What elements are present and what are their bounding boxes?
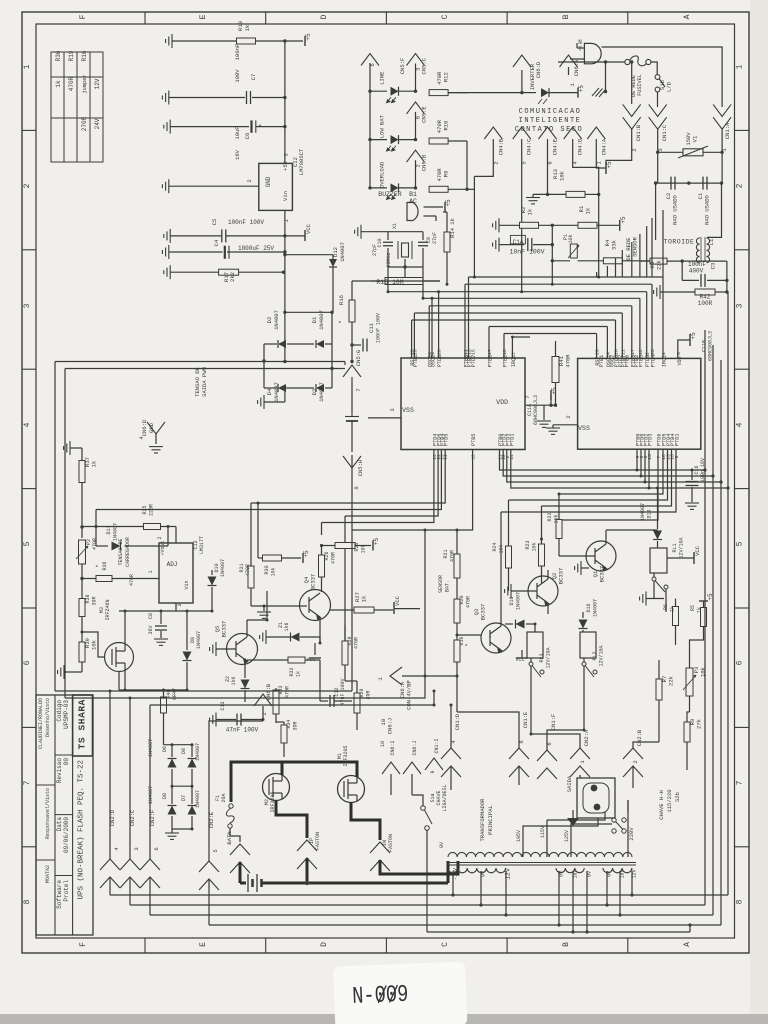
svg-text:PTD1: PTD1 — [675, 434, 681, 446]
wire margin v3 — [720, 360, 722, 925]
diode D6 1N4007 — [168, 759, 177, 768]
wire — [370, 139, 387, 141]
transistor Q5 BC337 — [227, 634, 258, 665]
sticker N-009 — [333, 961, 467, 1024]
svg-text:CN1:F: CN1:F — [550, 714, 557, 731]
junction — [282, 271, 285, 274]
wire — [216, 719, 236, 721]
regulator C13 LM317T — [159, 543, 193, 603]
crystal X1 — [402, 243, 409, 257]
frame tick top — [506, 12, 508, 24]
svg-text:26: 26 — [437, 349, 443, 355]
connector pin — [623, 104, 641, 116]
svg-text:1N4007: 1N4007 — [339, 242, 346, 262]
wire — [275, 688, 277, 690]
fuse F1 20A — [229, 804, 233, 808]
svg-text:Vin: Vin — [184, 580, 190, 589]
wire — [163, 713, 165, 745]
svg-text:D14: D14 — [647, 509, 653, 518]
svg-text:4: 4 — [23, 422, 32, 427]
svg-text:D: D — [320, 14, 329, 19]
svg-text:RL3: RL3 — [539, 653, 545, 662]
wire stem — [415, 112, 417, 140]
wire — [250, 588, 252, 606]
connector — [297, 840, 317, 869]
wire bus line — [412, 319, 616, 321]
svg-text:C5: C5 — [211, 219, 218, 226]
table column line — [63, 52, 65, 162]
title divider left — [36, 784, 55, 786]
resistor R19 * — [454, 640, 460, 662]
+5 bar — [699, 600, 708, 602]
wire — [119, 610, 212, 612]
svg-text:2: 2 — [645, 352, 651, 355]
svg-text:T: T — [578, 46, 582, 53]
wire — [658, 660, 660, 679]
frame tick left — [22, 726, 36, 728]
wire — [583, 666, 585, 684]
wire IC2 VDD pin to +5 — [678, 340, 690, 358]
wire — [675, 599, 677, 607]
ground G3 — [164, 120, 170, 134]
wire — [172, 828, 192, 830]
wire — [555, 341, 557, 357]
svg-text:26: 26 — [614, 349, 620, 355]
wire — [667, 557, 694, 559]
wire — [532, 194, 534, 197]
svg-text:0V: 0V — [439, 842, 445, 848]
svg-text:7: 7 — [23, 780, 32, 785]
wire — [129, 698, 131, 859]
svg-text:1N4007: 1N4007 — [318, 310, 325, 330]
svg-text:27k: 27k — [696, 718, 703, 729]
wire — [321, 577, 323, 592]
title cell TS SHARA — [73, 695, 93, 756]
title divider — [55, 814, 73, 816]
wire — [597, 224, 620, 226]
wire — [330, 609, 354, 611]
svg-text:+5: +5 — [578, 85, 585, 93]
wire down to bus — [598, 194, 600, 277]
wire — [541, 566, 543, 583]
wire tap 18V — [619, 871, 621, 915]
svg-text:470R: 470R — [565, 354, 572, 368]
svg-text:A: A — [683, 14, 692, 19]
wire — [657, 541, 659, 548]
svg-text:R15 10M: R15 10M — [376, 279, 403, 286]
frame tick right — [735, 726, 750, 728]
svg-text:CN2:C: CN2:C — [129, 809, 136, 826]
varistor slash — [678, 146, 708, 158]
+5 supply buzzer — [444, 202, 446, 212]
svg-text:R35: R35 — [142, 505, 148, 514]
wire — [499, 244, 524, 246]
wire — [399, 187, 416, 189]
svg-text:22k: 22k — [668, 675, 675, 686]
svg-text:1k6: 1k6 — [231, 676, 237, 685]
wire CN4:A stem to +5 — [596, 139, 606, 168]
LED LINE — [391, 87, 399, 96]
capacitor C7 — [247, 91, 251, 104]
switch S2b chave H-H — [612, 818, 616, 822]
diode — [579, 620, 588, 629]
svg-text:SENSOR: SENSOR — [632, 236, 639, 257]
wire — [581, 567, 589, 569]
svg-text:D8: D8 — [181, 748, 187, 754]
table row line — [51, 76, 103, 78]
diode — [278, 340, 286, 348]
diode D8b 1N4007 — [168, 806, 177, 815]
svg-text:CN1:E: CN1:E — [522, 711, 529, 728]
wire stem — [415, 64, 417, 92]
wire — [345, 680, 357, 682]
transistor Q3 BC337 — [481, 623, 511, 653]
svg-text:+5: +5 — [303, 550, 310, 558]
frame tick left — [22, 488, 36, 490]
svg-text:1k: 1k — [91, 460, 98, 467]
svg-text:17: 17 — [487, 349, 493, 355]
svg-text:R9: R9 — [443, 171, 450, 178]
junction — [283, 125, 286, 128]
wire — [125, 545, 169, 547]
wire Q4 emitter — [319, 617, 321, 643]
svg-text:1N4007: 1N4007 — [640, 503, 646, 521]
junction — [630, 60, 633, 63]
wire — [703, 151, 722, 153]
wire — [605, 530, 607, 544]
wire L1 bottom row — [640, 260, 650, 262]
connector pin — [649, 117, 667, 129]
S1a blade — [425, 810, 433, 824]
frame tick bottom — [627, 938, 629, 953]
svg-text:1N4007: 1N4007 — [273, 310, 280, 330]
svg-text:470R: 470R — [436, 71, 443, 85]
ground — [685, 503, 699, 509]
wire margin v1 — [704, 330, 706, 905]
wire IC2 right-bottom pins to left — [559, 449, 663, 494]
ground Q2 — [505, 584, 511, 598]
resistor R21 470R — [454, 554, 460, 578]
frame tick top — [627, 12, 629, 24]
svg-text:12V/10A: 12V/10A — [599, 645, 605, 666]
svg-text:470R: 470R — [450, 550, 456, 562]
svg-text:5: 5 — [674, 455, 680, 458]
ground C14 — [493, 238, 499, 252]
svg-text:C13: C13 — [220, 701, 226, 710]
wire — [457, 634, 481, 636]
svg-text:DE REDE: DE REDE — [625, 237, 632, 261]
frame tick bottom — [506, 938, 508, 953]
svg-text:CN2:B: CN2:B — [636, 729, 643, 746]
svg-text:6: 6 — [736, 660, 745, 665]
wire — [456, 662, 458, 676]
wire — [171, 816, 173, 829]
svg-text:47nF 100V: 47nF 100V — [226, 727, 259, 734]
diode D5 LED — [541, 88, 549, 97]
svg-text:CN1:B: CN1:B — [635, 124, 642, 141]
connector CN4:B — [484, 127, 502, 139]
svg-text:3: 3 — [415, 68, 422, 71]
svg-text:BC337: BC337 — [480, 604, 487, 621]
junction — [80, 525, 83, 528]
table column line — [76, 52, 78, 162]
wire — [518, 766, 520, 785]
svg-text:6: 6 — [546, 742, 553, 745]
svg-text:VSS: VSS — [402, 407, 414, 414]
wire — [404, 259, 406, 267]
svg-text:X1: X1 — [392, 223, 398, 229]
wire tap 12V — [505, 871, 507, 915]
svg-text:2: 2 — [632, 760, 639, 763]
connector CN5:B — [407, 150, 425, 162]
wire run B — [130, 904, 705, 906]
svg-text:R6: R6 — [663, 604, 669, 610]
wire — [186, 662, 188, 690]
svg-text:CN6:J: CN6:J — [412, 740, 418, 755]
capacitor — [330, 695, 334, 707]
resistor R9 — [429, 186, 448, 192]
wire bus drop right — [662, 277, 664, 358]
resistor — [701, 608, 707, 627]
ground — [260, 630, 266, 644]
svg-text:LOW BAT: LOW BAT — [379, 114, 386, 138]
svg-text:PTD5: PTD5 — [444, 434, 450, 446]
resistor — [650, 258, 667, 264]
svg-text:Codigo: Codigo — [56, 700, 63, 722]
svg-text:2: 2 — [736, 183, 745, 188]
svg-text:12V: 12V — [505, 868, 512, 880]
transformer core — [448, 862, 636, 864]
connector CN5:H — [343, 456, 361, 468]
svg-text:CN4:B: CN4:B — [497, 138, 504, 155]
junction — [283, 39, 286, 42]
wire — [109, 691, 111, 859]
wire bus line — [489, 326, 607, 328]
capacitor C4 electrolytic — [224, 246, 226, 259]
wire VCC stub — [285, 235, 305, 237]
wire feeder — [621, 250, 623, 277]
svg-text:4: 4 — [605, 352, 611, 355]
frame tick right — [735, 368, 750, 370]
VCC bar — [309, 657, 321, 659]
svg-text:R30: R30 — [264, 565, 270, 574]
resistor — [656, 679, 662, 700]
wire +5 rail top row — [172, 40, 237, 42]
svg-text:33k: 33k — [611, 239, 618, 250]
wire taps to switch — [523, 818, 598, 830]
wire bus drop left — [411, 320, 413, 358]
wire — [552, 425, 554, 428]
ground Q1 — [575, 561, 581, 575]
wire bus drop right — [621, 313, 623, 358]
wire C4 row — [169, 251, 223, 253]
svg-text:470R: 470R — [331, 552, 337, 564]
wire — [456, 623, 458, 640]
resistor R10 — [429, 138, 448, 144]
resistor R32 1k — [288, 657, 305, 663]
wire — [331, 369, 333, 389]
outlet pin — [594, 804, 601, 811]
svg-text:220V: 220V — [628, 827, 635, 841]
wire — [633, 742, 659, 748]
wire — [499, 224, 519, 226]
svg-text:00: 00 — [63, 758, 70, 766]
wire mains to fuse — [558, 61, 625, 63]
wire — [551, 225, 553, 260]
frame tick right — [735, 488, 750, 490]
wire tap 220V — [627, 800, 629, 857]
title divider — [55, 754, 73, 756]
RL1 contact — [652, 577, 656, 581]
wire pin 658 run — [560, 449, 658, 520]
wire — [582, 612, 584, 618]
svg-text:CN5:B: CN5:B — [421, 154, 428, 171]
wire bus drop right — [606, 327, 608, 359]
resistor — [319, 555, 325, 577]
svg-text:1N4007: 1N4007 — [196, 631, 202, 649]
svg-text:27pF: 27pF — [372, 244, 378, 256]
capacitor C10 — [383, 242, 393, 246]
svg-text:MOATA2: MOATA2 — [45, 865, 51, 883]
junction — [414, 186, 417, 189]
wire — [646, 598, 664, 600]
wire — [282, 557, 302, 559]
wire crystal bottoms — [387, 248, 389, 267]
wire — [404, 267, 406, 281]
mosfet M1 IRF3205 — [338, 776, 365, 803]
transformer secondary winding 1 — [448, 868, 506, 873]
junction — [681, 259, 684, 262]
svg-text:D16: D16 — [586, 603, 592, 612]
transistor Q4 BC337 — [300, 590, 331, 621]
wire — [175, 527, 177, 544]
wire R17 row — [170, 271, 218, 273]
wire — [576, 43, 578, 48]
svg-text:12V: 12V — [94, 78, 101, 89]
svg-text:1N4007: 1N4007 — [113, 523, 119, 541]
wire bus drop right — [646, 292, 648, 359]
connector CN6:D — [513, 55, 531, 67]
svg-text:VDD: VDD — [496, 399, 508, 406]
svg-text:Vin: Vin — [282, 191, 289, 201]
svg-text:E: E — [199, 14, 208, 19]
svg-text:FUSIVEL: FUSIVEL — [637, 74, 643, 96]
transistor Q1 BC337 — [586, 541, 616, 571]
connector pin — [623, 117, 641, 129]
resistor — [539, 544, 545, 566]
wire — [583, 684, 585, 730]
svg-text:*: * — [338, 320, 345, 324]
+5 bar IC2 — [689, 334, 691, 346]
wire pin2 gnd — [169, 185, 259, 187]
svg-text:8: 8 — [736, 899, 745, 904]
+5 mid — [302, 553, 304, 563]
wire — [530, 658, 532, 662]
wire — [244, 660, 246, 678]
resistor — [79, 642, 85, 662]
wire — [351, 322, 353, 362]
wire bus drop left — [468, 277, 470, 358]
wire — [689, 925, 691, 932]
svg-text:470R: 470R — [466, 596, 472, 608]
wire — [374, 609, 393, 611]
svg-text:R38: R38 — [85, 594, 91, 603]
frame tick right — [735, 846, 750, 848]
svg-text:2: 2 — [565, 415, 572, 418]
svg-text:115/220: 115/220 — [666, 789, 673, 812]
wire — [275, 714, 277, 723]
capacitor C9 — [418, 242, 428, 246]
svg-text:NAO USADO: NAO USADO — [704, 194, 711, 224]
wire — [606, 529, 658, 531]
svg-text:CN5:F: CN5:F — [399, 58, 406, 75]
svg-text:16V: 16V — [234, 149, 241, 160]
wire bus drop left — [503, 334, 505, 359]
wire margin v4 — [727, 292, 729, 895]
wire — [539, 224, 578, 226]
title divider — [55, 875, 73, 877]
wire thick battery to transformer — [262, 882, 449, 885]
svg-text:*: * — [95, 564, 102, 568]
resistor — [273, 690, 279, 714]
svg-text:SAIDA PWM: SAIDA PWM — [201, 367, 208, 397]
svg-text:115V: 115V — [540, 826, 546, 838]
wire Q1 base — [559, 555, 595, 557]
svg-text:0V: 0V — [481, 871, 487, 877]
wire — [283, 722, 285, 725]
wire — [583, 658, 585, 662]
svg-text:15: 15 — [647, 454, 653, 460]
wire PWM bus upper — [55, 361, 285, 363]
wire — [370, 90, 387, 92]
wire bus line — [388, 291, 647, 293]
svg-text:PTB5: PTB5 — [471, 434, 477, 446]
svg-text:R36: R36 — [102, 561, 108, 570]
svg-text:1N4007: 1N4007 — [273, 382, 280, 402]
svg-text:C7: C7 — [250, 74, 257, 81]
svg-text:BC337: BC337 — [599, 566, 606, 583]
wire — [541, 539, 543, 544]
svg-text:100nF: 100nF — [234, 44, 241, 61]
wire — [160, 611, 162, 624]
wire — [247, 619, 267, 621]
svg-text:1N4007: 1N4007 — [148, 786, 154, 804]
resistor — [354, 607, 374, 613]
svg-text:100V: 100V — [234, 69, 241, 83]
connector — [370, 842, 390, 871]
RL3 contact — [529, 662, 533, 666]
svg-text:150V: 150V — [685, 132, 692, 146]
wire — [319, 637, 321, 643]
diode — [653, 531, 662, 540]
wire — [322, 545, 336, 547]
svg-text:BC337: BC337 — [310, 574, 317, 591]
wire — [96, 545, 108, 547]
svg-text:1N4007: 1N4007 — [220, 559, 226, 577]
svg-text:10k: 10k — [532, 542, 538, 551]
wire CN4:D stem — [573, 139, 599, 194]
svg-text:OVERLOAD: OVERLOAD — [379, 161, 386, 188]
svg-text:C4: C4 — [213, 239, 220, 246]
svg-text:ADJ: ADJ — [167, 561, 178, 568]
resistor — [556, 520, 562, 539]
svg-text:D12: D12 — [332, 247, 339, 257]
wire feeder — [651, 218, 653, 277]
svg-text:V1: V1 — [692, 135, 699, 142]
wire — [149, 705, 151, 859]
resistor — [552, 357, 559, 383]
outlet SAIDA — [577, 778, 615, 818]
